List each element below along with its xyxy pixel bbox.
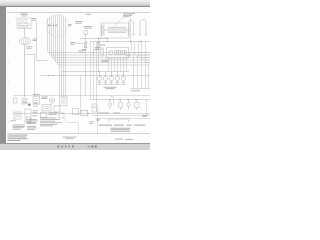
- injector return bus: [97, 84, 126, 86]
- injector INJ4: [115, 72, 119, 85]
- wire U1 to M1: [24, 29, 26, 38]
- junction dots on bus: [109, 99, 136, 100]
- right edge drop: [146, 100, 148, 116]
- lower cluster: text: [42, 97, 49, 99]
- lower cluster row2: box: [14, 112, 21, 119]
- right-side drop wires: [132, 42, 151, 63]
- ECU pin drops to injector bus: [109, 58, 127, 72]
- connector pin dots: [48, 25, 57, 26]
- injector INJ1: [97, 72, 101, 85]
- wire riser to border: [97, 106, 99, 134]
- figure caption center: [63, 137, 77, 140]
- heater bar R1: [104, 28, 131, 33]
- junction dot: [130, 41, 131, 42]
- label F2: [95, 48, 100, 51]
- pager controls in status bar: [58, 145, 74, 147]
- small box in notes row: [41, 112, 47, 117]
- label F3: [100, 44, 106, 47]
- injector INJ5: [121, 72, 125, 85]
- wire branch stub: [25, 21, 48, 61]
- label below M1: [27, 47, 33, 49]
- fuse holder F3: [101, 47, 104, 57]
- injector INJ2: [103, 72, 107, 85]
- wire F2 up: [98, 38, 100, 42]
- harness wires through P1: [48, 15, 151, 97]
- sensor SW4: [135, 100, 140, 111]
- sender box B1: [92, 104, 97, 112]
- note text block top-left: [21, 13, 29, 17]
- notes numbered list: [40, 118, 62, 127]
- small box on bus: [73, 108, 79, 114]
- junction dots bottom bus: [62, 113, 89, 114]
- title block table: [111, 128, 131, 132]
- zoom controls in status bar: [88, 145, 97, 147]
- jumper loop J1: [128, 20, 134, 35]
- bracket wire above title row: [109, 119, 129, 122]
- label U3: [95, 47, 110, 62]
- title strip cells: [97, 119, 101, 121]
- lower cluster row2: tall box: [25, 109, 31, 123]
- lower cluster: alternator G1: [49, 98, 54, 103]
- wire S1 down: [85, 34, 87, 42]
- ECU inner circle: [109, 51, 113, 55]
- wire feed to relay K2: [34, 55, 36, 97]
- label U1: [32, 18, 37, 20]
- junction dot: [93, 52, 94, 53]
- relay K1 body: [84, 26, 93, 28]
- right edge drop wires lower: [134, 53, 149, 89]
- tiny text: [23, 101, 28, 104]
- small box on bus 2: [81, 110, 88, 116]
- lower cluster: relay box K2: [33, 97, 40, 105]
- jumper loop J2: [139, 20, 146, 36]
- right lower bus: [130, 88, 150, 90]
- junction dot: [48, 75, 49, 76]
- ladder element: [102, 25, 104, 37]
- injector bus: [62, 71, 129, 73]
- small box right column: [127, 53, 131, 57]
- junction dot: [107, 38, 108, 39]
- junction dark: [28, 104, 30, 106]
- wire riser: [130, 13, 132, 42]
- injector return drop: [111, 97, 114, 105]
- relay K1 label: [75, 21, 83, 23]
- fuse F2: [97, 42, 100, 48]
- lower cluster: starter: [22, 99, 27, 105]
- ECU box U3: [107, 48, 129, 59]
- lower right rail: [95, 118, 150, 120]
- title strip text row: [99, 125, 145, 126]
- main bus wire: [90, 41, 150, 43]
- junction dot: [98, 71, 99, 72]
- lower cluster: battery box: [14, 98, 18, 103]
- notes paragraph 1: [13, 125, 26, 130]
- mid verticals to lower cluster: [81, 49, 99, 114]
- part number text right: [115, 139, 133, 140]
- lower sensor bus A: [13, 95, 150, 97]
- text right of small box: [49, 112, 58, 114]
- long cross wire: [40, 75, 150, 77]
- small text left of title table: [89, 121, 94, 123]
- ECU inner resistor: [115, 51, 127, 55]
- wire riser to border 2: [66, 118, 79, 134]
- small part: [34, 103, 37, 106]
- notes paragraph 2: [27, 119, 38, 130]
- text near top border: [86, 13, 91, 16]
- caption paragraph below border: [8, 135, 28, 141]
- label P1: [68, 24, 72, 26]
- junction dot: [52, 75, 53, 76]
- long bottom bus: [13, 113, 150, 115]
- lower cluster row2: box wide: [42, 105, 51, 112]
- switch S1: [84, 31, 88, 35]
- label M1: [33, 39, 38, 41]
- lower cluster row2: box right: [54, 106, 60, 112]
- sense wires left of ECU: [91, 42, 97, 105]
- junction dot 2: [140, 41, 141, 42]
- injector INJ3: [109, 72, 113, 85]
- lower cluster row2: text: [11, 111, 39, 122]
- sheet note text top-right: [123, 13, 135, 17]
- glow plug assembly U2: [101, 23, 129, 38]
- lower cluster: box: [60, 97, 68, 106]
- leader line to heater bar: [114, 18, 123, 28]
- frame zone ticks: [8, 22, 10, 122]
- wire bus K1 row: [80, 38, 108, 40]
- label sensors: [98, 112, 120, 115]
- sensor SW3: [127, 100, 130, 110]
- label mid wires: [79, 50, 86, 52]
- inner mark: [16, 114, 19, 117]
- control module U1: [17, 18, 31, 29]
- lower right rail 2: [92, 115, 150, 117]
- bulkhead connector P1 (dashed circle): [46, 15, 68, 37]
- sensor SW2: [119, 100, 123, 111]
- label injectors: [104, 87, 117, 89]
- label F1: [70, 42, 86, 50]
- lower sensor bus B: [90, 99, 150, 101]
- small box 2 in notes row: [59, 113, 64, 118]
- schematic frame top border: [7, 12, 150, 14]
- wire M1 down to lower cluster: [24, 45, 26, 97]
- fuel pump motor M1: [19, 38, 31, 45]
- label right bus: [131, 89, 140, 92]
- sensor SW1: [108, 100, 111, 110]
- schematic frame bottom border: [7, 133, 150, 135]
- right edge text: [142, 115, 148, 117]
- junction dot: [98, 38, 99, 39]
- label K2: [33, 93, 40, 96]
- junction dot: [107, 41, 108, 42]
- fuse F1: [84, 42, 87, 48]
